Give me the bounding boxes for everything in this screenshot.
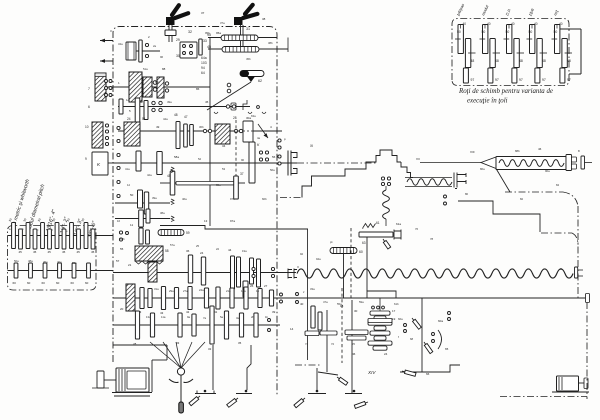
svg-text:24a: 24a: [199, 288, 204, 292]
svg-text:60: 60: [71, 281, 75, 285]
svg-text:60a: 60a: [438, 319, 443, 323]
svg-text:66a: 66a: [398, 317, 403, 321]
base symbol C: [308, 393, 326, 395]
svg-text:Roţi de schimb pentru varianta: Roţi de schimb pentru varianta de: [458, 88, 553, 95]
svg-text:9a: 9a: [187, 315, 191, 319]
apron top link: [367, 291, 396, 298]
svg-text:32: 32: [208, 347, 212, 351]
svg-text:39: 39: [272, 310, 276, 314]
svg-text:27a: 27a: [183, 289, 188, 293]
svg-text:1b: 1b: [265, 315, 269, 319]
apron feed worm shaft: [420, 162, 481, 164]
svg-text:XI: XI: [310, 144, 313, 148]
svg-text:51: 51: [142, 117, 146, 121]
svg-text:95b: 95b: [205, 31, 210, 35]
svg-text:40: 40: [559, 22, 563, 26]
svg-text:45: 45: [62, 250, 66, 254]
svg-text:34: 34: [222, 144, 226, 148]
motor M2 right: [557, 376, 579, 391]
rack bar 45: [222, 47, 259, 53]
sleeve gear on spindle: [249, 142, 255, 183]
svg-text:33a: 33a: [310, 287, 315, 291]
svg-text:52: 52: [198, 157, 202, 161]
svg-text:88a: 88a: [155, 80, 160, 84]
svg-text:45a: 45a: [43, 260, 48, 264]
dashed vertical x236: [235, 120, 237, 180]
base symbol A: [195, 393, 216, 395]
svg-text:f: f: [398, 335, 399, 339]
selector ball: [177, 368, 184, 375]
svg-text:z: z: [303, 290, 305, 294]
svg-text:49: 49: [156, 125, 160, 129]
svg-text:D.P.: D.P.: [504, 8, 512, 17]
dash-dot left of carriage: [280, 197, 302, 199]
svg-text:21a: 21a: [226, 289, 231, 293]
svg-text:22: 22: [216, 247, 220, 251]
arrow input 1: [100, 40, 113, 42]
svg-text:e: e: [66, 229, 68, 233]
flag A: [189, 397, 199, 406]
svg-text:39a: 39a: [152, 196, 157, 200]
svg-text:56: 56: [272, 155, 276, 159]
svg-text:XIV: XIV: [367, 370, 376, 375]
wire: diagonal to clutch: [207, 82, 251, 110]
feed shaft F3: [113, 324, 280, 326]
svg-text:30b: 30b: [199, 125, 204, 129]
svg-text:94a: 94a: [316, 257, 321, 261]
svg-text:5: 5: [129, 109, 131, 113]
fan to selector: [150, 342, 181, 368]
svg-text:59: 59: [186, 231, 190, 235]
rack bar 95: [221, 35, 258, 41]
svg-text:2a: 2a: [153, 44, 157, 48]
svg-text:41a: 41a: [125, 167, 130, 171]
flag D near apron: [318, 372, 338, 375]
svg-text:35: 35: [238, 341, 242, 345]
flag F below VII: [383, 241, 390, 250]
fork VII: [394, 230, 401, 240]
svg-text:24: 24: [384, 352, 388, 356]
shaft III: [118, 130, 282, 132]
svg-text:60b: 60b: [262, 197, 267, 201]
svg-text:97: 97: [495, 78, 499, 82]
svg-text:execuţie în ţoli: execuţie în ţoli: [467, 98, 508, 105]
svg-text:30: 30: [80, 217, 85, 222]
svg-text:55: 55: [120, 247, 124, 251]
shaft II: [118, 106, 250, 108]
svg-text:48: 48: [519, 59, 523, 63]
svg-text:9: 9: [85, 157, 87, 161]
svg-text:19a: 19a: [242, 249, 247, 253]
svg-text:37: 37: [201, 11, 205, 15]
worm shaft pointed: [481, 157, 496, 169]
spindle gear: [157, 152, 162, 175]
svg-text:96: 96: [160, 55, 164, 59]
svg-text:c: c: [37, 228, 39, 232]
svg-text:37a: 37a: [220, 21, 225, 25]
bracket K: [97, 371, 104, 388]
svg-text:66: 66: [426, 372, 430, 376]
svg-text:40a: 40a: [57, 260, 62, 264]
svg-text:44: 44: [228, 248, 232, 252]
svg-text:50: 50: [482, 30, 486, 34]
svg-text:2b: 2b: [251, 315, 255, 319]
svg-text:13: 13: [204, 219, 208, 223]
vertical worm: [385, 186, 387, 190]
change gears top right: [458, 25, 463, 54]
motor M1: [116, 368, 149, 392]
svg-text:48: 48: [542, 59, 546, 63]
carriage right outline: [458, 201, 540, 232]
svg-text:62: 62: [258, 79, 262, 83]
svg-text:26: 26: [250, 284, 254, 288]
svg-text:17: 17: [392, 309, 396, 313]
svg-text:58: 58: [165, 249, 169, 253]
svg-text:38b: 38b: [268, 41, 273, 45]
svg-text:48a: 48a: [28, 259, 33, 263]
svg-text:13a: 13a: [146, 315, 151, 319]
svg-text:29: 29: [176, 38, 180, 42]
jaw clutch leadscrew: [288, 269, 297, 279]
svg-text:d: d: [51, 228, 53, 232]
lever L2 top: [234, 17, 243, 25]
svg-text:15: 15: [256, 289, 260, 293]
small parts below handle: [231, 103, 236, 110]
pulley on shaft I: [126, 42, 136, 60]
spindle centerline dash-dot: [297, 162, 377, 164]
svg-text:64b: 64b: [120, 237, 125, 241]
border: change gear box top right dash-dot: [452, 19, 569, 86]
svg-text:45: 45: [205, 100, 209, 104]
svg-text:47: 47: [184, 115, 188, 119]
shaft VI: [115, 202, 170, 204]
svg-text:46: 46: [352, 352, 356, 356]
bearing T right: [581, 156, 585, 169]
svg-text:14: 14: [290, 327, 294, 331]
svg-text:XIII: XIII: [470, 150, 475, 154]
svg-text:32: 32: [188, 30, 192, 34]
svg-text:50: 50: [506, 30, 510, 34]
svg-text:46: 46: [538, 147, 542, 151]
leadscrew wavy: [297, 269, 573, 278]
svg-text:74: 74: [305, 342, 309, 346]
svg-text:33: 33: [203, 39, 207, 43]
svg-text:30: 30: [22, 217, 27, 222]
svg-text:60: 60: [359, 250, 363, 254]
wire: vertical to base C: [316, 368, 318, 390]
svg-text:40: 40: [511, 22, 515, 26]
svg-text:25: 25: [196, 244, 200, 248]
svg-text:94: 94: [201, 66, 205, 70]
svg-text:50: 50: [130, 193, 134, 197]
svg-text:modul: modul: [480, 4, 489, 16]
spring symbols: [171, 167, 174, 173]
svg-text:7: 7: [88, 87, 90, 91]
svg-text:pt: pt: [330, 240, 333, 244]
wide gear y320: [368, 319, 392, 323]
vertical line x307: [307, 229, 309, 360]
svg-text:27: 27: [264, 284, 268, 288]
svg-text:88: 88: [162, 67, 166, 71]
svg-text:6: 6: [88, 105, 90, 109]
knob 32: [165, 30, 176, 36]
svg-text:28: 28: [233, 116, 237, 120]
apron bottom: [400, 365, 460, 372]
svg-text:61b: 61b: [394, 302, 399, 306]
svg-text:8: 8: [578, 149, 580, 153]
svg-text:60: 60: [27, 281, 31, 285]
svg-text:47a: 47a: [323, 300, 328, 304]
hatched block F2: [126, 284, 135, 311]
svg-text:97: 97: [542, 78, 546, 82]
friction clutch right: [129, 72, 142, 102]
svg-text:3: 3: [110, 29, 112, 33]
apron gears: [311, 306, 315, 328]
svg-text:1: 1: [118, 81, 120, 85]
friction clutch left: [95, 73, 106, 101]
svg-text:68: 68: [410, 337, 414, 341]
svg-text:11a: 11a: [161, 315, 166, 319]
svg-text:18a: 18a: [241, 289, 246, 293]
svg-text:40: 40: [487, 22, 491, 26]
svg-text:45: 45: [19, 250, 23, 254]
feed gearbox top gears: [119, 231, 122, 234]
striped coupling: [158, 230, 184, 236]
svg-text:4: 4: [270, 125, 272, 129]
svg-text:5a: 5a: [220, 315, 224, 319]
svg-text:45: 45: [48, 250, 52, 254]
wire: diagonal from worm: [496, 169, 510, 193]
feed shaft F1 / leadscrew line: [113, 272, 296, 274]
svg-text:60: 60: [42, 281, 46, 285]
left block: clutch K: [92, 122, 103, 148]
svg-text:10: 10: [85, 125, 89, 129]
svg-text:60: 60: [56, 281, 60, 285]
svg-text:38: 38: [262, 17, 266, 21]
svg-text:63: 63: [362, 241, 366, 245]
svg-text:48: 48: [567, 59, 571, 63]
svg-text:59a: 59a: [359, 300, 364, 304]
leadscrew nut right: [575, 267, 578, 278]
svg-text:92: 92: [300, 252, 304, 256]
svg-text:31a: 31a: [154, 287, 159, 291]
tower right steps: [401, 162, 413, 178]
svg-text:97: 97: [567, 78, 571, 82]
lever L1 top: [166, 17, 175, 25]
svg-text:2: 2: [148, 35, 150, 39]
svg-text:11: 11: [130, 223, 133, 227]
svg-text:b: b: [22, 227, 24, 231]
svg-text:57: 57: [116, 259, 120, 263]
svg-text:48: 48: [471, 59, 475, 63]
svg-text:88b: 88b: [515, 149, 520, 153]
svg-text:40: 40: [463, 22, 467, 26]
svg-text:60: 60: [85, 281, 89, 285]
tower: [373, 150, 401, 162]
svg-text:34a: 34a: [118, 42, 123, 46]
svg-text:86a: 86a: [480, 167, 485, 171]
svg-text:30: 30: [354, 309, 358, 313]
svg-text:20: 20: [120, 307, 124, 311]
gear stack left of spindle: [136, 151, 141, 171]
arrow input 2: [100, 60, 113, 62]
shaft VIa: [115, 218, 170, 220]
svg-text:64a: 64a: [201, 56, 207, 60]
worm wheel circles: [381, 177, 384, 180]
flag E bottom: [354, 401, 366, 408]
svg-text:19: 19: [392, 317, 396, 321]
svg-text:37: 37: [240, 172, 244, 176]
cross shaft VII: [359, 232, 393, 237]
svg-text:ţ/ţoli: ţ/ţoli: [527, 8, 535, 17]
svg-text:35a: 35a: [216, 183, 221, 187]
feed rod end: [586, 294, 590, 303]
svg-text:40: 40: [534, 22, 538, 26]
svg-text:97: 97: [519, 78, 523, 82]
svg-text:65: 65: [445, 347, 449, 351]
svg-text:36: 36: [186, 249, 190, 253]
dash-dot segment y233: [541, 232, 572, 234]
svg-text:24: 24: [127, 117, 131, 121]
left change gear cluster: [8, 235, 114, 237]
apron box: [341, 288, 343, 363]
svg-text:97: 97: [471, 78, 475, 82]
left circles column: [117, 126, 120, 129]
shaft I: [95, 86, 210, 88]
svg-text:90: 90: [241, 158, 245, 162]
svg-text:40: 40: [300, 302, 304, 306]
svg-text:95a: 95a: [216, 31, 221, 35]
cylinder with dashed bore: [243, 121, 253, 142]
svg-text:45: 45: [33, 250, 37, 254]
svg-text:53: 53: [222, 167, 226, 171]
gear 60 striped: [330, 248, 357, 254]
svg-text:45: 45: [77, 250, 81, 254]
svg-text:45b: 45b: [246, 57, 251, 61]
svg-text:50: 50: [529, 30, 533, 34]
svg-text:4a: 4a: [257, 136, 261, 140]
svg-text:II: II: [297, 265, 299, 269]
feed box bottom line: [113, 344, 167, 346]
wire: vertical to base A: [212, 345, 214, 390]
borders bottom right: [500, 396, 587, 398]
wire: motor to gearbox: [151, 360, 153, 392]
svg-text:42a: 42a: [147, 173, 152, 177]
svg-text:57a: 57a: [170, 243, 175, 247]
arrow to cylinder: [258, 124, 268, 138]
carriage stepped outline: [302, 162, 373, 198]
svg-text:51a: 51a: [143, 67, 148, 71]
svg-text:ţoli/pas: ţoli/pas: [455, 3, 465, 17]
wire VII vertical: [366, 237, 368, 291]
zigzag 61: [363, 224, 376, 228]
base symbol B: [236, 393, 252, 395]
svg-text:29a: 29a: [169, 289, 174, 293]
box K: [92, 152, 108, 175]
feed shaft F2 feed rod: [113, 297, 588, 299]
motor base: [112, 392, 152, 394]
handle 61 with pivot: [240, 71, 264, 77]
shaft V splined: [176, 182, 234, 185]
flag B: [227, 399, 237, 408]
flag C: [294, 399, 304, 408]
gears on F1: [188, 255, 192, 283]
svg-text:84: 84: [556, 183, 560, 187]
wire: change box right extension: [569, 28, 581, 30]
border: headstock dash-dot frame: [113, 27, 277, 396]
dash-dot control rod: [505, 191, 563, 193]
svg-text:80: 80: [465, 192, 469, 196]
svg-text:7a: 7a: [203, 316, 207, 320]
svg-text:76: 76: [415, 227, 419, 231]
apron right small parts: [404, 324, 407, 327]
svg-text:45: 45: [167, 174, 171, 178]
svg-text:60: 60: [13, 281, 17, 285]
svg-text:63a: 63a: [251, 114, 256, 118]
svg-text:K: K: [257, 143, 260, 147]
svg-text:3a: 3a: [236, 316, 240, 320]
svg-text:30: 30: [176, 54, 180, 58]
svg-text:103: 103: [201, 61, 207, 65]
svg-text:50: 50: [457, 30, 461, 34]
svg-text:42: 42: [186, 310, 190, 314]
worm stack: [370, 311, 390, 315]
svg-text:61a: 61a: [396, 222, 401, 226]
svg-text:90a: 90a: [545, 169, 550, 173]
svg-text:46a: 46a: [182, 197, 187, 201]
wire: vertical x210: [209, 38, 211, 227]
reversing box 29/30: [180, 42, 197, 58]
short worm with fork: [405, 177, 452, 179]
svg-text:24: 24: [200, 251, 204, 255]
svg-text:38a: 38a: [160, 211, 165, 215]
gears on F2: [140, 288, 144, 309]
wire: vertical to base B: [247, 345, 251, 390]
svg-text:97b: 97b: [230, 197, 235, 201]
tumbler gear hatched: [148, 262, 157, 282]
svg-text:82: 82: [520, 197, 524, 201]
chuck on spindle: [288, 151, 291, 176]
svg-text:58a: 58a: [174, 155, 179, 159]
svg-text:97a: 97a: [230, 219, 235, 223]
svg-text:55a: 55a: [337, 302, 342, 306]
svg-text:21: 21: [128, 263, 132, 267]
border: left change-gear box dash-dot: [8, 226, 97, 291]
svg-text:70: 70: [352, 342, 356, 346]
svg-text:48: 48: [495, 59, 499, 63]
svg-text:31: 31: [246, 27, 250, 31]
svg-text:50: 50: [554, 30, 558, 34]
svg-text:12: 12: [127, 183, 131, 187]
svg-text:78: 78: [430, 237, 434, 241]
svg-text:86: 86: [196, 87, 200, 91]
svg-text:p: p: [284, 137, 286, 141]
svg-text:72: 72: [331, 342, 335, 346]
svg-text:48: 48: [174, 113, 178, 117]
gears on F3: [135, 311, 139, 339]
svg-text:44a: 44a: [163, 117, 168, 121]
svg-text:56a: 56a: [270, 168, 275, 172]
svg-text:X: X: [560, 267, 562, 271]
svg-text:61: 61: [376, 221, 380, 225]
svg-text:XII: XII: [416, 157, 420, 161]
svg-text:16: 16: [117, 219, 121, 223]
svg-text:1a: 1a: [126, 98, 130, 102]
svg-text:45: 45: [91, 250, 95, 254]
wire: x343 down: [343, 254, 345, 299]
wire: headstock bottom step: [160, 226, 308, 230]
svg-text:36a: 36a: [72, 261, 77, 265]
